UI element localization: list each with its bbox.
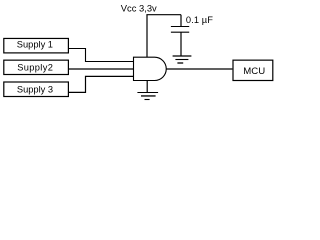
capacitor C1 top lead <box>180 15 182 27</box>
svg-text:MCU: MCU <box>243 66 265 77</box>
capacitor C1 bottom lead <box>180 32 182 56</box>
ground (capacitor) <box>173 56 192 63</box>
wire Supply 1 to gate input 1 <box>69 49 134 62</box>
svg-text:Vcc 3,3v: Vcc 3,3v <box>121 3 157 14</box>
svg-text:Supply 3: Supply 3 <box>17 85 53 95</box>
wire gate ground pin <box>146 81 148 93</box>
svg-text:Supply2: Supply2 <box>17 63 53 73</box>
box Supply 1 <box>4 38 69 52</box>
box MCU <box>233 60 273 80</box>
wire Supply 3 to gate input 3 <box>69 76 134 92</box>
wire Vcc branch to capacitor <box>146 14 181 16</box>
svg-text:0.1 µF: 0.1 µF <box>186 15 213 25</box>
AND gate U1 <box>134 57 167 80</box>
box Supply 3 <box>4 82 69 97</box>
ground (gate) <box>137 93 158 100</box>
wire gate output to MCU <box>166 68 232 70</box>
svg-text:Supply 1: Supply 1 <box>17 40 53 50</box>
capacitor C1 plates <box>171 27 189 33</box>
wire Vcc vertical down to gate power pin <box>146 15 148 58</box>
wire Supply2 to gate input 2 <box>69 68 134 70</box>
box Supply2 <box>4 60 69 74</box>
